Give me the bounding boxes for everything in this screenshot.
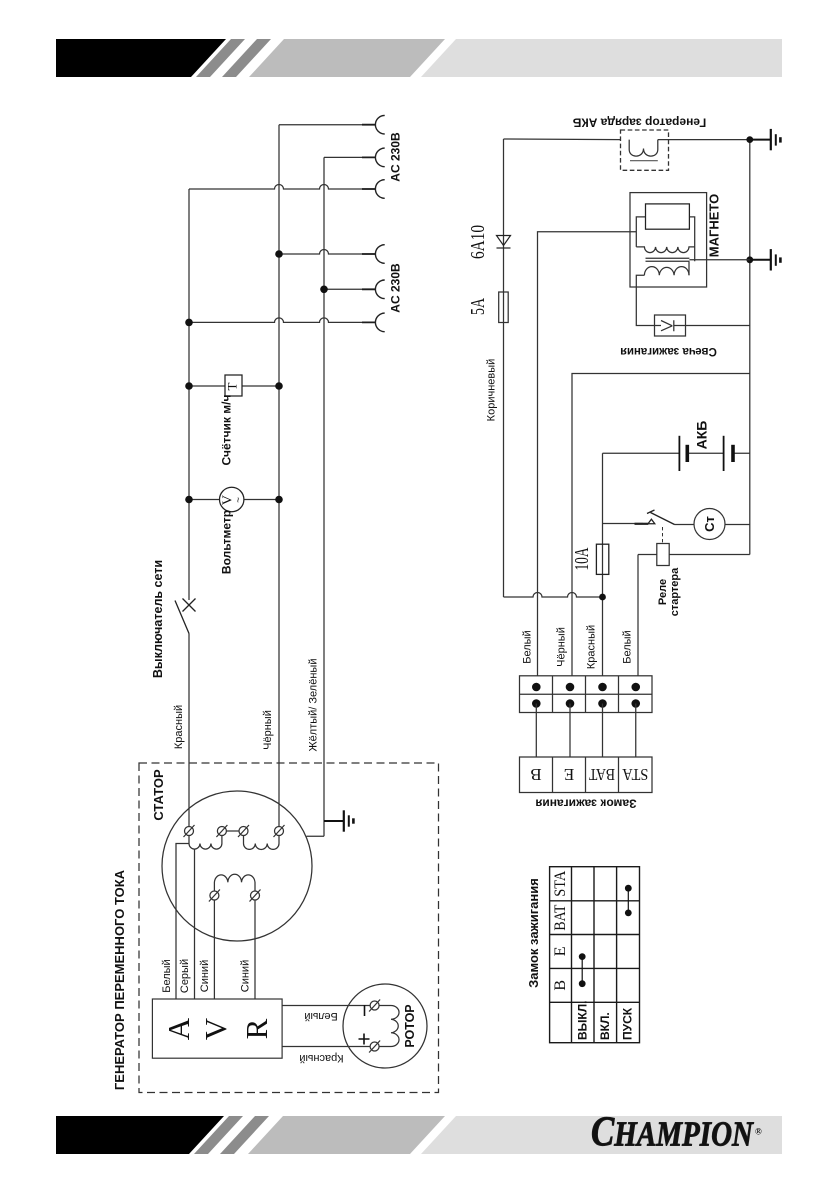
svg-text:STA: STA — [552, 870, 569, 896]
wire brown vertical (Коричневый) — [503, 139, 505, 597]
wire red bus vertical (Красный) upper — [188, 189, 190, 600]
wire black loop (Чёрный) — [572, 374, 750, 676]
outlet socket arc 4 — [375, 245, 384, 264]
wire white kill line (Белый left) — [538, 232, 637, 676]
svg-text:AC 230В: AC 230В — [389, 132, 403, 182]
header stripe 2 — [222, 39, 271, 77]
svg-text:ГЕНЕРАТОР ПЕРЕМЕННОГО ТОКА: ГЕНЕРАТОР ПЕРЕМЕННОГО ТОКА — [112, 869, 127, 1090]
spark plug gap symbol — [655, 320, 686, 331]
junction dot black/counter — [275, 382, 283, 390]
ground G2 — [750, 249, 781, 270]
svg-text:АКБ: АКБ — [694, 421, 710, 450]
svg-text:Чёрный: Чёрный — [262, 710, 274, 750]
stator sub terminal right — [251, 891, 260, 900]
footer bar black segment — [56, 1116, 224, 1154]
wire outlet 1 — [279, 124, 375, 126]
header light gray bar — [421, 39, 782, 77]
svg-text:Белый: Белый — [522, 630, 534, 663]
stator terminal T1 — [185, 827, 194, 836]
outlet socket arc 3 — [375, 180, 384, 199]
stator sub terminal left — [210, 891, 219, 900]
AVR block box — [152, 999, 282, 1058]
wire red connector line (Красный) — [602, 453, 604, 676]
table link ВЫКЛ (B-E) — [581, 957, 583, 984]
header bar black segment — [56, 39, 226, 77]
junction dot red/voltmeter — [185, 496, 193, 504]
wire relay row right — [669, 554, 750, 556]
svg-text:Замок зажигания: Замок зажигания — [535, 797, 636, 811]
ground near stator (G3) — [324, 810, 353, 831]
starter relay coil box — [657, 544, 669, 566]
outlet socket arc 1 — [375, 115, 384, 134]
stator terminal T2 — [217, 827, 226, 836]
wire Белый tap branch — [176, 844, 189, 1000]
ignition switch terminal block — [520, 757, 653, 793]
wire starter motor to bus — [725, 524, 750, 526]
svg-text:AC 230В: AC 230В — [389, 263, 403, 313]
svg-text:®: ® — [755, 1127, 762, 1137]
table link ПУСК (BAT-STA) — [627, 888, 629, 913]
header stripe 1 — [196, 39, 245, 77]
stator main winding coil B — [244, 836, 280, 850]
connector block top — [520, 676, 653, 713]
magneto secondary coil — [644, 267, 689, 276]
fuse 5А — [499, 292, 509, 323]
magneto outer box — [630, 193, 707, 287]
ground G1 — [750, 129, 781, 150]
wire battery to bus — [733, 452, 750, 454]
svg-text:CHAMPION: CHAMPION — [591, 1109, 755, 1155]
starter contact thick segment — [635, 523, 649, 525]
svg-text:Е: Е — [552, 947, 569, 957]
magneto core lines — [646, 258, 690, 261]
wire outlet 3 with hops — [189, 185, 375, 190]
wire outlet 2 — [324, 156, 375, 158]
rotor terminal bottom — [370, 1042, 379, 1051]
charge generator dashed box — [621, 130, 669, 170]
wire outlet 6 with hops — [189, 318, 375, 322]
svg-text:Счётчик м/ч: Счётчик м/ч — [220, 395, 234, 466]
svg-text:Замок зажигания: Замок зажигания — [526, 878, 541, 988]
switch Выключатель сети blade — [175, 601, 189, 634]
starter relay dashed link — [662, 527, 664, 544]
connector pins bottom row — [532, 699, 541, 708]
wire brown bottom horizontal with hops — [504, 593, 603, 598]
voltmeter circle — [220, 487, 244, 511]
svg-text:BAT: BAT — [552, 904, 569, 930]
svg-text:Белый: Белый — [622, 630, 634, 663]
starter switch blade — [647, 510, 675, 525]
wire T2-T3 link — [226, 830, 239, 832]
svg-text:ПУСК: ПУСК — [621, 1007, 635, 1040]
wire brown top horizontal to charge generator — [504, 138, 621, 141]
svg-text:МАГНЕТО: МАГНЕТО — [707, 194, 722, 257]
outlet wire stubs — [362, 125, 375, 323]
magneto output wire to ground bus — [689, 259, 749, 261]
battery cell2 short plate — [731, 445, 735, 462]
starter contact triangle — [648, 519, 655, 524]
spark plug box Свеча зажигания — [655, 315, 686, 336]
svg-text:STA: STA — [622, 765, 649, 784]
svg-text:Красный: Красный — [586, 625, 598, 669]
footer stripe 2 — [220, 1116, 269, 1154]
svg-text:R: R — [239, 1018, 274, 1039]
rotor circle — [343, 984, 427, 1068]
svg-text:BAT: BAT — [589, 765, 615, 784]
dashed box ГЕНЕРАТОР ПЕРЕМЕННОГО ТОКА — [139, 763, 439, 1093]
starter motor circle Ст — [694, 509, 725, 540]
footer mid gray bar — [248, 1116, 445, 1154]
wires connector to switch block — [536, 704, 635, 758]
svg-text:Реле: Реле — [657, 579, 669, 605]
wire battery mid segment — [687, 452, 723, 454]
svg-text:Выключатель сети: Выключатель сети — [151, 560, 165, 678]
svg-text:Ст: Ст — [702, 516, 717, 532]
stator terminal T4 — [275, 827, 284, 836]
wire outlet 4 with hop — [279, 250, 375, 254]
junction dot G1 — [746, 136, 753, 143]
magneto module rect — [646, 204, 690, 229]
svg-text:Белый: Белый — [161, 959, 173, 992]
stator terminal T3 — [239, 827, 248, 836]
CHAMPION logo — [591, 1109, 762, 1155]
junction dot yellow-green/outlet5 — [320, 286, 328, 294]
svg-text:Красный: Красный — [299, 1052, 343, 1064]
svg-text:Красный: Красный — [173, 705, 185, 749]
footer light gray bar — [421, 1116, 782, 1154]
svg-text:A: A — [161, 1017, 196, 1040]
charge generator coil — [629, 140, 658, 157]
outlet socket arc 2 — [375, 148, 384, 167]
charge generator core line — [630, 160, 658, 162]
svg-text:Чёрный: Чёрный — [556, 627, 568, 667]
footer stripe 1 — [194, 1116, 243, 1154]
switch cross X — [183, 599, 196, 612]
wire Синий right — [254, 900, 256, 999]
svg-text:Коричневый: Коричневый — [486, 359, 498, 422]
wire yellow-green to stator frame — [307, 835, 325, 837]
outlet socket arc 5 — [375, 280, 384, 299]
wire hour-counter branch — [189, 385, 279, 387]
wire yellow-green bus vertical (Жёлтый/Зелёный) — [323, 157, 325, 836]
diode 6А10 — [497, 236, 511, 249]
outlet socket arc 6 — [375, 313, 384, 332]
svg-text:~: ~ — [234, 497, 245, 503]
svg-text:В: В — [530, 765, 541, 784]
svg-text:Генератор заряда АКБ: Генератор заряда АКБ — [572, 116, 706, 130]
wire spark plug to bus — [686, 325, 750, 327]
svg-text:Синий: Синий — [199, 960, 211, 992]
header mid gray bar — [249, 39, 445, 77]
wire voltmeter branch — [189, 499, 279, 501]
wire AVR to rotor bottom (Красный) — [282, 1046, 370, 1048]
stator circle — [162, 791, 312, 941]
junction dot black/voltmeter — [275, 496, 283, 504]
stator sub winding coil — [214, 874, 255, 891]
battery cell2 long plate — [723, 436, 725, 471]
svg-text:5А: 5А — [467, 298, 489, 315]
magneto secondary right link — [688, 261, 690, 275]
wire ground bus vertical right — [749, 140, 751, 555]
svg-text:Синий: Синий — [240, 960, 252, 992]
hour counter box Счётчик м/ч — [225, 375, 242, 396]
battery cell1 short plate — [685, 445, 689, 462]
wire Серый tap branch — [194, 849, 196, 999]
svg-text:Белый: Белый — [304, 1010, 337, 1022]
stator main winding coil A — [189, 836, 222, 850]
fuse 10А — [596, 544, 608, 574]
junction dot red/counter — [185, 382, 193, 390]
svg-text:6А10: 6А10 — [467, 225, 489, 259]
svg-text:ВКЛ.: ВКЛ. — [598, 1012, 612, 1040]
wire relay down to connector — [637, 555, 639, 676]
junction dot red/outlet6 — [185, 319, 193, 327]
rotor minus sign — [364, 1005, 366, 1016]
svg-text:РОТОР: РОТОР — [403, 1004, 417, 1047]
wire starter blade to motor — [675, 524, 695, 526]
wire battery feed horizontal — [603, 452, 679, 454]
svg-text:V: V — [198, 1017, 233, 1040]
battery АКБ cell1 long plate — [678, 436, 680, 471]
svg-text:Свеча зажигания: Свеча зажигания — [620, 345, 717, 357]
rotor plus sign — [359, 1034, 370, 1045]
junction dot black/outlet4 — [275, 250, 283, 258]
magneto frame — [636, 217, 694, 261]
svg-text:СТАТОР: СТАТОР — [151, 769, 166, 821]
svg-text:Серый: Серый — [179, 959, 191, 993]
rotor terminal top — [370, 1001, 379, 1010]
wire red bus vertical lower (below switch) — [188, 634, 190, 827]
junction dot brown/red — [599, 594, 606, 601]
wire charge generator to ground bus — [658, 139, 750, 141]
svg-text:стартера: стартера — [669, 567, 681, 616]
magneto primary coil — [636, 247, 694, 253]
svg-text:В: В — [552, 980, 569, 991]
rotor coil — [379, 1006, 399, 1047]
connector pins top row — [532, 683, 541, 692]
wire starter switch feed — [603, 523, 644, 525]
wire outlet 5 — [324, 288, 375, 290]
junction dot G2 — [746, 256, 753, 263]
svg-text:Жёлтый/ Зелёный: Жёлтый/ Зелёный — [308, 659, 320, 752]
wire black bus vertical (Чёрный) — [278, 125, 280, 827]
wire Синий left — [213, 900, 215, 999]
svg-text:Е: Е — [564, 765, 574, 784]
svg-text:Т: Т — [224, 382, 239, 390]
magneto HT lead to spark plug — [636, 275, 654, 325]
wire AVR to rotor top (Белый) — [282, 1005, 370, 1007]
svg-text:ВЫКЛ.: ВЫКЛ. — [576, 1001, 590, 1041]
svg-text:10А: 10А — [571, 547, 593, 570]
svg-text:Вольтметр: Вольтметр — [220, 510, 234, 574]
wire relay row left — [638, 554, 657, 556]
